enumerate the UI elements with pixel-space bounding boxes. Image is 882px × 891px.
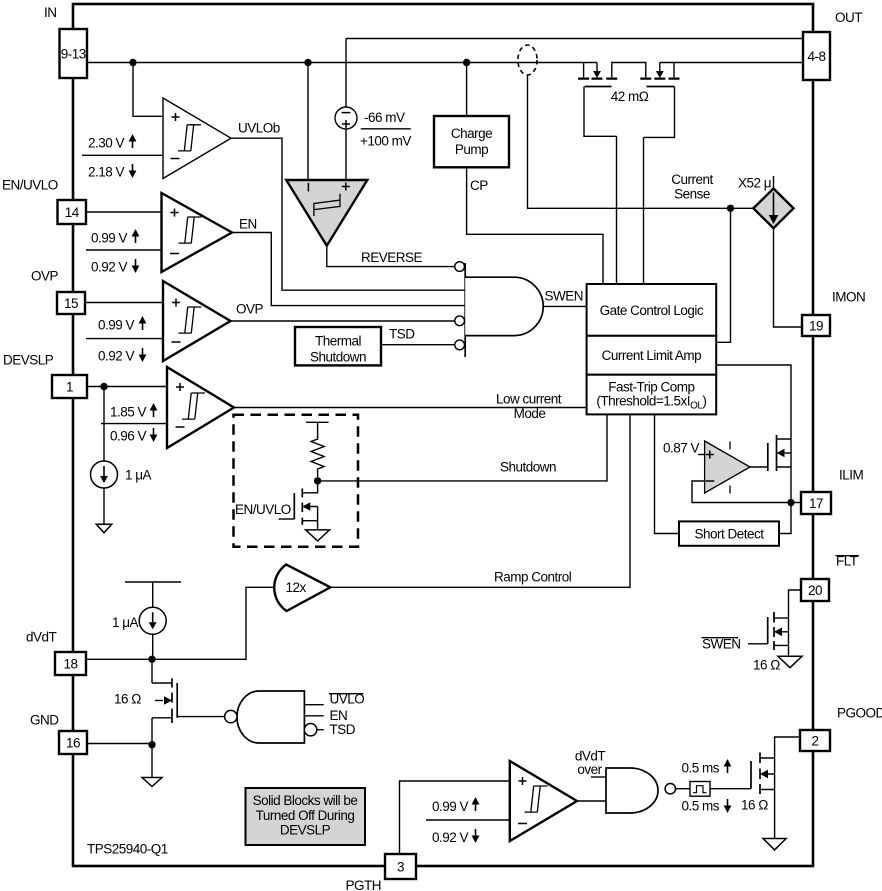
ground symbol in dashed box xyxy=(306,530,330,541)
svg-text:0.87 V: 0.87 V xyxy=(663,441,700,456)
svg-text:SWEN: SWEN xyxy=(702,637,741,652)
svg-text:12x: 12x xyxy=(286,580,307,595)
svg-text:REVERSE: REVERSE xyxy=(361,250,423,265)
op-amp U5 reverse comparator (shaded, off during DEVSLP) xyxy=(286,180,367,246)
svg-text:Turned Off During: Turned Off During xyxy=(256,808,355,823)
wire ramp control xyxy=(330,586,630,588)
junction node on IN bus at x=308 xyxy=(304,59,311,66)
svg-text:EN: EN xyxy=(239,217,257,232)
wire short detect to ILIM node xyxy=(779,503,791,534)
svg-text:Sense: Sense xyxy=(674,187,710,202)
current source I2 1uA dVdT xyxy=(139,607,166,634)
svg-text:+100 mV: +100 mV xyxy=(360,134,411,149)
wire current limit amp output to ILIM FET drain xyxy=(716,365,791,439)
wire fast-trip comp to shutdown net xyxy=(318,414,607,481)
svg-text:0.92 V: 0.92 V xyxy=(91,260,128,275)
pin 1 DEVSLP xyxy=(52,375,87,398)
inverting bubble OVP input xyxy=(455,316,465,326)
svg-text:Gate Control Logic: Gate Control Logic xyxy=(600,303,704,318)
threshold divider line UVLO xyxy=(82,154,163,156)
wire UVLOb output to AND gate xyxy=(231,138,465,290)
svg-text:Current Limit Amp: Current Limit Amp xyxy=(602,348,702,363)
pin 18 dVdT xyxy=(55,652,86,675)
wire one-shot to PGOOD FET gate xyxy=(710,788,751,790)
power FET Q1/Q2 back-to-back pass FETs xyxy=(578,63,679,87)
charge pump block xyxy=(434,116,509,167)
wire EN output to AND gate xyxy=(232,233,465,306)
wire SWEN to Gate Control Logic xyxy=(543,305,586,307)
op-amp U10 PGTH comparator xyxy=(510,761,577,841)
wire fast-trip comp to short detect xyxy=(655,414,680,533)
junction node ILIM xyxy=(787,499,794,506)
pin 15 OVP xyxy=(57,292,85,314)
wire IMON mirror to pin 19 xyxy=(774,228,803,327)
transistor Q4 EN/UVLO pulldown FET xyxy=(279,481,318,530)
wire amp inverting input feedback to ILIM node xyxy=(692,481,791,503)
svg-text:9-13: 9-13 xyxy=(61,46,86,61)
svg-text:3: 3 xyxy=(397,859,404,874)
svg-text:0.5 ms: 0.5 ms xyxy=(681,799,719,814)
AND gate U6 5-input SWEN gate xyxy=(464,263,466,357)
wire CP output to Gate Control Logic xyxy=(467,167,603,284)
svg-text:EN/UVLO: EN/UVLO xyxy=(235,502,291,517)
svg-text:16: 16 xyxy=(66,735,80,750)
svg-text:IMON: IMON xyxy=(832,290,865,305)
svg-text:ILIM: ILIM xyxy=(839,468,864,483)
fast-trip comparator block xyxy=(587,375,717,415)
op-amp U3 OVP comparator xyxy=(163,281,231,361)
svg-text:Pump: Pump xyxy=(455,142,488,157)
pin 16 GND xyxy=(59,731,87,754)
junction node current sense tap xyxy=(727,205,734,212)
power rail bar in dashed box xyxy=(306,422,329,440)
inverting bubble REVERSE input xyxy=(455,262,465,272)
svg-text:Current: Current xyxy=(671,172,713,187)
junction node GND xyxy=(148,741,155,748)
svg-text:Shutdown: Shutdown xyxy=(500,460,556,475)
junction node dVdT xyxy=(148,656,155,663)
pin 4-8 OUT xyxy=(803,32,830,80)
svg-text:Solid Blocks will be: Solid Blocks will be xyxy=(253,793,358,808)
threshold divider line PGTH xyxy=(426,819,510,821)
svg-text:0.92 V: 0.92 V xyxy=(98,349,135,364)
pin 17 ILIM xyxy=(801,492,831,514)
dashed kelvin-connection ellipse xyxy=(518,45,537,75)
svg-text:-66 mV: -66 mV xyxy=(364,110,405,125)
gate control logic block xyxy=(587,284,717,336)
op-amp U4 DEVSLP comparator xyxy=(167,367,234,448)
svg-text:0.5 ms: 0.5 ms xyxy=(681,761,719,776)
pin 14 EN/UVLO xyxy=(58,200,87,224)
pin 3 PGTH xyxy=(385,854,416,879)
wire DEVSLP output Low current Mode to Fast-Trip Comp xyxy=(234,407,587,409)
pin 20 FLT xyxy=(801,579,829,601)
wire pin 16 to GND node xyxy=(87,744,152,778)
svg-text:TPS25940-Q1: TPS25940-Q1 xyxy=(87,842,168,857)
svg-text:14: 14 xyxy=(65,205,80,220)
svg-text:Charge: Charge xyxy=(451,126,492,141)
svg-text:16 Ω: 16 Ω xyxy=(753,658,780,673)
wire IN bus y=62 xyxy=(87,62,597,64)
svg-text:0.99 V: 0.99 V xyxy=(98,318,135,333)
pin 9-13 IN xyxy=(60,29,88,78)
svg-text:OVP: OVP xyxy=(31,269,59,284)
wire ILIM node to pin 17 xyxy=(791,502,801,504)
svg-text:OUT: OUT xyxy=(835,10,862,25)
op-amp U8 12x ramp amplifier xyxy=(274,565,330,612)
wire comparator to PGOOD NAND xyxy=(577,800,606,802)
svg-text:0.99 V: 0.99 V xyxy=(432,799,469,814)
wire fast-trip comp to ramp control net xyxy=(629,414,631,588)
svg-text:4-8: 4-8 xyxy=(807,49,825,64)
ground symbol dVdT FET xyxy=(142,778,162,787)
wire pin14 to EN comparator xyxy=(86,211,162,213)
svg-text:2: 2 xyxy=(811,733,818,748)
threshold divider line EN xyxy=(86,249,162,251)
svg-text:15: 15 xyxy=(64,296,78,311)
svg-text:Ramp Control: Ramp Control xyxy=(494,570,572,585)
inverting bubble TSD input xyxy=(304,724,316,736)
short detect block xyxy=(679,521,779,545)
resistor 42 mOhm sense element outline xyxy=(584,87,675,138)
svg-text:Shutdown: Shutdown xyxy=(310,350,366,365)
junction node shutdown/EN-UVLO xyxy=(314,477,321,484)
wire TSD to AND gate bubble xyxy=(381,344,455,346)
svg-text:SWEN: SWEN xyxy=(545,289,584,304)
transistor Q5 dVdT discharge FET 16 Ohm xyxy=(152,659,225,744)
one-shot deglitch block 0.5ms xyxy=(690,782,710,797)
svg-text:16 Ω: 16 Ω xyxy=(114,692,141,707)
svg-text:TSD: TSD xyxy=(330,722,356,737)
svg-text:0.92 V: 0.92 V xyxy=(432,830,469,845)
svg-text:DEVSLP: DEVSLP xyxy=(280,823,331,838)
svg-text:18: 18 xyxy=(63,656,77,671)
svg-text:Fast-Trip Comp: Fast-Trip Comp xyxy=(608,379,694,394)
svg-text:X52 μ: X52 μ xyxy=(738,176,771,191)
svg-text:over: over xyxy=(577,762,602,777)
inverting bubble PGOOD NAND output xyxy=(665,784,675,794)
svg-text:PGTH: PGTH xyxy=(345,878,381,891)
wire pin 20 to FLT FET xyxy=(789,590,802,618)
svg-text:Low current: Low current xyxy=(496,392,562,407)
wire pin1 to DEVSLP comparator xyxy=(87,386,167,388)
svg-text:2.30 V: 2.30 V xyxy=(88,136,125,151)
svg-text:16 Ω: 16 Ω xyxy=(741,798,768,813)
wire bus to OUT pin xyxy=(660,62,803,64)
svg-text:GND: GND xyxy=(30,713,59,728)
voltage source V1 -66mV/+100mV offset xyxy=(345,39,347,108)
junction node on IN bus at x=466.6 (charge pump tap) xyxy=(463,59,470,66)
wire IN tap to reverse comparator inverting input xyxy=(307,63,309,181)
svg-text:dVdT: dVdT xyxy=(26,630,57,645)
ground symbol FLT FET xyxy=(778,656,802,667)
svg-text:1 μA: 1 μA xyxy=(125,468,152,483)
wire vertical from OUT sense to current-sense line xyxy=(527,75,529,208)
wire current sense horizontal xyxy=(527,207,753,209)
wire NAND to deglitch one-shot xyxy=(676,788,691,790)
pin 19 IMON xyxy=(802,315,830,336)
svg-text:Mode: Mode xyxy=(514,406,546,421)
svg-text:1 μA: 1 μA xyxy=(112,615,139,630)
wire pin15 to OVP comparator xyxy=(85,302,163,304)
svg-text:Short Detect: Short Detect xyxy=(694,527,764,542)
wire IN bus tap to charge pump xyxy=(466,63,468,117)
pin 2 PGOOD xyxy=(800,730,830,751)
junction node on IN bus at x=133 xyxy=(129,59,136,66)
svg-text:IN: IN xyxy=(44,5,57,20)
resistor R1 pullup in dashed box xyxy=(311,439,324,477)
inverting bubble TSD input xyxy=(455,340,465,350)
wire pin 3 PGTH to comparator xyxy=(400,781,510,854)
wire dVdT over input stub xyxy=(591,776,606,778)
svg-text:TSD: TSD xyxy=(389,327,415,342)
op-amp U7 current limit amp (shaded) 0.87V xyxy=(705,441,750,493)
svg-text:0.96 V: 0.96 V xyxy=(110,429,147,444)
current source I1 1uA xyxy=(103,387,105,462)
wire FET common drain bridge xyxy=(612,63,646,78)
wire REVERSE output to AND gate bubble xyxy=(327,246,455,267)
svg-text:1: 1 xyxy=(66,379,73,394)
transistor Q3 ILIM clamp FET xyxy=(750,435,791,503)
wire 0.87V ref stub xyxy=(698,454,705,456)
threshold divider line DEVSLP xyxy=(101,423,167,425)
wire sense leg A to Gate Control Logic xyxy=(616,136,618,284)
svg-text:EN/UVLO: EN/UVLO xyxy=(2,178,58,193)
NAND gate U11 PGOOD xyxy=(606,768,658,813)
svg-text:1.85 V: 1.85 V xyxy=(110,405,147,420)
svg-text:19: 19 xyxy=(809,318,823,333)
op-amp U1 UVLO comparator xyxy=(163,98,231,179)
thermal shutdown block xyxy=(295,327,381,365)
svg-text:DEVSLP: DEVSLP xyxy=(3,353,54,368)
svg-text:42 mΩ: 42 mΩ xyxy=(611,89,649,104)
junction node DEVSLP xyxy=(100,383,107,390)
svg-text:17: 17 xyxy=(809,496,823,511)
wire sense leg B to Gate Control Logic xyxy=(643,137,645,284)
current source X52u IMON mirror (shaded) xyxy=(773,176,775,189)
current limit amp block xyxy=(587,336,717,375)
svg-text:EN: EN xyxy=(330,708,348,723)
transistor Q7 PGOOD open-drain FET 16 Ohm xyxy=(751,737,800,839)
svg-text:2.18 V: 2.18 V xyxy=(88,165,125,180)
wire NAND input stubs xyxy=(304,705,323,730)
inverting bubble NAND output xyxy=(225,710,237,722)
ground symbol PGOOD FET xyxy=(763,839,786,850)
svg-text:PGOOD: PGOOD xyxy=(837,706,882,721)
power rail bar dVdT source xyxy=(125,582,181,607)
svg-text:Thermal: Thermal xyxy=(315,334,362,349)
svg-text:OVP: OVP xyxy=(236,302,264,317)
svg-text:0.99 V: 0.99 V xyxy=(91,231,128,246)
wire OVP output to AND gate bubble xyxy=(231,320,455,322)
op-amp U2 EN comparator xyxy=(162,193,233,272)
threshold divider line OVP xyxy=(86,338,163,340)
dashed box: blocks turned off during DEVSLP (EN/UVLO pulldown) xyxy=(234,415,359,547)
transistor Q6 FLT open-drain FET 16 Ohm xyxy=(748,612,789,656)
note box: Solid Blocks will be Turned Off During DEVSLP xyxy=(246,788,366,845)
svg-text:20: 20 xyxy=(808,583,822,598)
wire IN tap to UVLO comparator + input xyxy=(133,63,163,117)
svg-text:UVLOb: UVLOb xyxy=(238,121,280,136)
wire sense tap to current limit amp xyxy=(716,208,730,342)
NAND gate U9 (UVLO,EN,TSD) left-facing xyxy=(237,691,304,743)
wire pin 18 dVdT node xyxy=(86,587,275,659)
svg-text:CP: CP xyxy=(470,178,488,193)
wire OUT sense line y=38 xyxy=(346,38,803,40)
ground symbol DEVSLP source xyxy=(96,524,112,533)
